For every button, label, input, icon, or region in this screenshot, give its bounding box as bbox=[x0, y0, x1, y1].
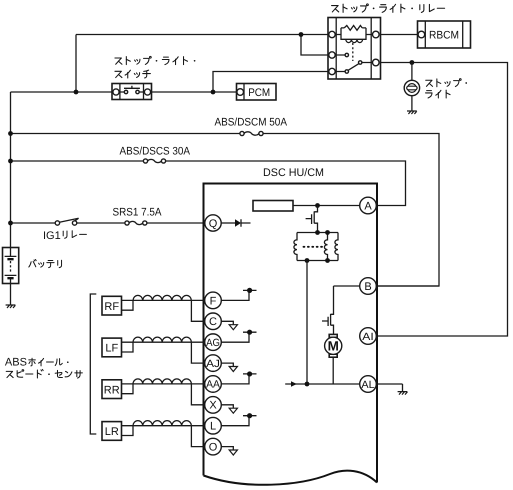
wire: sensor RR leads and coil bbox=[122, 384, 134, 394]
terminal AJ bbox=[221, 363, 233, 366]
svg-text:AJ: AJ bbox=[206, 358, 220, 370]
node: junction bus / 30A line bbox=[8, 159, 13, 164]
relay: stop light relay box bbox=[328, 18, 381, 80]
ground: terminal AL bbox=[398, 392, 408, 395]
svg-text:Q: Q bbox=[209, 218, 218, 230]
svg-text:M: M bbox=[328, 339, 339, 354]
relay switch contacts bbox=[335, 55, 373, 72]
solenoid valve block bbox=[297, 233, 338, 261]
solenoid mechanical link (dashed) bbox=[304, 246, 325, 248]
svg-text:RR: RR bbox=[104, 384, 120, 396]
wire: battery feed top bus to stop-light relay coil bbox=[76, 35, 332, 93]
wire: drop to stop light bbox=[411, 63, 413, 81]
switch: stop light switch box bbox=[112, 84, 152, 100]
svg-text:SRS1 7.5A: SRS1 7.5A bbox=[113, 206, 163, 218]
wire: sensor LF leads and coil bbox=[122, 342, 134, 352]
wire: ABS/DSCS 30A line to terminal A bbox=[11, 161, 406, 206]
sensor RF: ABS wheel speed sensor bbox=[102, 296, 122, 315]
sensor LR: ABS wheel speed sensor bbox=[102, 422, 122, 441]
terminal O bbox=[221, 447, 233, 450]
svg-text:AG: AG bbox=[206, 337, 220, 349]
battery bbox=[3, 248, 19, 284]
label: バッテリ bbox=[29, 259, 36, 267]
svg-text:B: B bbox=[364, 281, 371, 293]
svg-text:ABS/DSCS 30A: ABS/DSCS 30A bbox=[120, 146, 191, 158]
terminal X bbox=[221, 405, 233, 408]
wire: SRS1 line to terminal Q bbox=[11, 222, 205, 224]
node: junction bus / SRS1 line bbox=[8, 221, 13, 226]
svg-text:RBCM: RBCM bbox=[429, 30, 459, 42]
wire: resistor to terminal A bbox=[293, 205, 360, 207]
svg-text:IG1: IG1 bbox=[43, 230, 61, 242]
relay armature dashed link bbox=[352, 43, 354, 61]
svg-text:RF: RF bbox=[104, 301, 119, 313]
fuse SRS1 7.5A bbox=[129, 221, 143, 224]
wire: motor to AL line bbox=[332, 357, 334, 384]
svg-text:X: X bbox=[209, 400, 217, 412]
fuse ABS/DSCM 50A bbox=[244, 132, 259, 135]
svg-text:AL: AL bbox=[361, 379, 374, 391]
svg-text:C: C bbox=[209, 316, 217, 328]
switch contacts: IG1 relay bbox=[59, 218, 78, 222]
node: junction battery feed / relay coil branch bbox=[299, 32, 304, 37]
ground: stop light bbox=[407, 111, 417, 114]
svg-text:LF: LF bbox=[105, 343, 118, 355]
ground: battery bbox=[6, 305, 16, 308]
svg-text:A: A bbox=[364, 201, 372, 213]
sensor LF: ABS wheel speed sensor bbox=[102, 338, 122, 357]
svg-text:PCM: PCM bbox=[248, 87, 270, 99]
transistor: pump motor FET bbox=[322, 286, 334, 334]
diode bbox=[235, 219, 241, 226]
wire: stop-light switch line bbox=[11, 72, 333, 93]
svg-text:AI: AI bbox=[362, 331, 374, 343]
wire: left battery bus bbox=[10, 92, 12, 248]
PCM module box bbox=[237, 84, 277, 101]
wire: sensor RF leads and coil bbox=[122, 300, 134, 310]
svg-text:DSC HU/CM: DSC HU/CM bbox=[263, 167, 324, 179]
RBCM module box bbox=[418, 21, 471, 48]
node: junction switch output to PCM and relay bbox=[211, 90, 216, 95]
svg-text:ABS/DSCM 50A: ABS/DSCM 50A bbox=[215, 117, 288, 129]
svg-text:ABS: ABS bbox=[5, 356, 27, 368]
wire: relay to RBCM bbox=[381, 34, 419, 36]
wire: solenoid return to AL line bbox=[306, 261, 308, 385]
terminal AA bbox=[221, 374, 256, 384]
lamp: stop light bulb bbox=[404, 80, 419, 95]
node: junction AL / solenoid return bbox=[305, 382, 310, 387]
terminal C bbox=[221, 321, 233, 324]
terminal Q bbox=[221, 222, 235, 224]
svg-text:AA: AA bbox=[206, 379, 220, 391]
label: ストップ・ライト bbox=[426, 80, 433, 86]
svg-text:F: F bbox=[210, 295, 217, 307]
terminal B wiring bbox=[334, 285, 440, 287]
label: ストップ・ライト・リレー bbox=[332, 6, 339, 12]
terminal L bbox=[221, 416, 256, 426]
node: junction at FET drain bbox=[315, 203, 320, 208]
wire: sensor LR leads and coil bbox=[122, 426, 134, 436]
node: junction at left bus / switch line bbox=[74, 90, 79, 95]
svg-text:LR: LR bbox=[105, 426, 119, 438]
relay pins bbox=[329, 31, 335, 37]
svg-text:O: O bbox=[209, 442, 218, 454]
terminal AL line with arrow and ground bbox=[285, 384, 402, 392]
label: ストップ・ライト・スイッチ bbox=[115, 58, 122, 64]
relay coil with resistor bbox=[335, 34, 373, 36]
resistor block bbox=[253, 201, 293, 212]
transistor: solenoid driver FET bbox=[306, 206, 318, 233]
wire: stop light to ground bbox=[411, 96, 413, 111]
svg-text:L: L bbox=[210, 421, 216, 433]
motor M bbox=[329, 334, 337, 337]
node: junction stop light branch bbox=[410, 60, 415, 65]
fuse ABS/DSCS 30A bbox=[148, 159, 162, 162]
terminal A bbox=[360, 197, 377, 214]
node: junction bus / 50A line bbox=[8, 131, 13, 136]
terminal AI bbox=[360, 328, 377, 345]
terminal F bbox=[221, 290, 256, 300]
terminal AG bbox=[221, 332, 256, 342]
wire: battery to ground bbox=[10, 284, 12, 306]
sensor RR: ABS wheel speed sensor bbox=[102, 380, 122, 399]
bracket: sensor group bbox=[90, 294, 96, 434]
module: DSC HU/CM box outline bbox=[204, 184, 378, 483]
wire: relay common to stop light and right bus down to AI bbox=[377, 63, 508, 337]
wire: ABS/DSCM 50A line to terminal B bbox=[11, 134, 440, 287]
